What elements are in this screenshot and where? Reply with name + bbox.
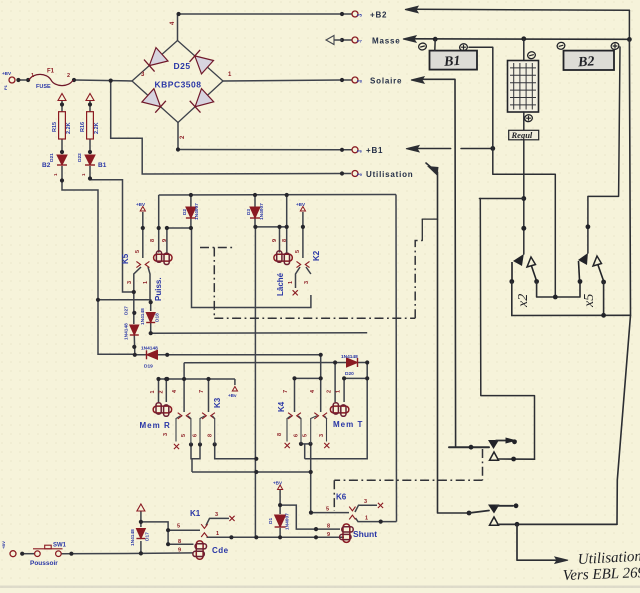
wire K1 pin3 [206,518,229,525]
svg-text:1N4148: 1N4148 [341,354,358,360]
svg-text:Mem T: Mem T [333,420,363,429]
wire K1 pin1 rail to Shunt [207,536,345,538]
svg-text:P6: P6 [357,148,363,153]
svg-text:D21: D21 [49,153,55,162]
svg-text:+BV: +BV [1,541,6,549]
power symbol above R15 [58,94,66,101]
svg-text:K1: K1 [190,509,201,518]
wire Regul down to x2 [523,140,525,254]
wire K2 coil leg8 from rail [286,195,288,253]
wire +B1 net [178,149,352,151]
wire D1 +BV col [279,490,281,514]
wire K3 leg8 to x256 [215,444,257,458]
wire K2 pin3 leg [306,267,311,274]
wire K6 pin1 [356,518,397,522]
svg-text:B2: B2 [42,162,51,169]
svg-text:6: 6 [193,434,199,437]
battery B1 box [430,51,478,70]
wire K6 pin3 [355,505,377,512]
svg-text:D18: D18 [155,313,161,322]
svg-text:8: 8 [282,239,288,242]
svg-text:K5: K5 [121,253,130,264]
wire Masse connector stub [344,39,352,41]
hand arrow Utilisation [427,166,439,176]
svg-text:5: 5 [181,434,187,437]
battery B2 box [564,51,615,70]
wire SW1 row [22,553,34,555]
wire K2 coil leg9 [279,227,281,253]
open arrow Masse net left [326,36,334,45]
svg-text:5: 5 [135,250,141,253]
wire K5 +BV col [142,212,144,258]
wire B Mem R row [159,378,235,380]
no-connect x K2 pin1 [293,290,298,295]
relay K3 contact 2 [193,390,215,444]
svg-text:5: 5 [295,250,301,253]
hand junction dot mid rail [553,295,558,300]
dash-dot linkage horizontal y480 [334,479,482,481]
wire K2 +BV col [302,212,304,258]
svg-text:+B2: +B2 [370,11,387,20]
no-connect x K6 pin3 [378,503,383,508]
wire fuse to bridge pin 3 [75,80,132,81]
wire K4 contact1 common [294,378,296,412]
svg-text:Cde: Cde [212,546,229,555]
diode D21 [42,153,67,176]
diode D2 1N4007 [182,203,200,220]
svg-text:5: 5 [326,507,329,513]
wire Mem T pin1 leg [343,378,345,402]
wire D18 cathode junction [150,323,152,334]
solar panel minus terminal [527,51,536,60]
wire D27 cathode to wireA [133,336,136,355]
svg-text:2: 2 [327,390,333,393]
relay K4 contact 1 [277,390,301,444]
wire K5 coil leg8 from rail [158,195,160,253]
wire rail 472 [192,471,311,473]
wire Masse to panel [523,39,525,60]
wire A with D19/D20 row [135,354,321,356]
power symbol above R16 [86,94,94,101]
svg-text:B1: B1 [98,162,107,169]
svg-text:D3: D3 [246,209,252,215]
wire K4 legs56 U down [300,443,302,445]
svg-text:+Bv: +Bv [228,393,237,398]
wire Mem T pin2 leg [334,363,336,403]
hand junction dots Masse [433,37,438,42]
wire rail down right to x=396 [395,195,398,522]
svg-text:5: 5 [177,524,180,530]
wire +BV input to fuse [18,79,26,81]
wire bridge pin1 to Solaire connector [223,80,352,81]
svg-text:KBPC3508: KBPC3508 [155,80,202,90]
wire D18 rail right [151,332,368,334]
wire K3 contact2 common [208,379,210,412]
connector P8 Solaire [352,77,358,83]
svg-text:FUSE: FUSE [36,84,51,90]
svg-text:Puiss.: Puiss. [154,277,163,301]
svg-text:P5: P5 [357,13,363,18]
svg-text:K6: K6 [336,493,347,502]
svg-text:D1: D1 [268,518,274,524]
connector P5 +B2 [352,11,358,17]
relay K6 contact [326,499,368,522]
svg-text:P9: P9 [357,172,363,177]
wire D2 bottom row [167,227,191,229]
solar panel plus terminal [524,114,533,123]
wire +BV wireB stub [234,379,236,385]
solar panel [508,61,539,113]
svg-text:3: 3 [304,281,310,284]
svg-text:Masse: Masse [372,37,400,46]
svg-text:9: 9 [272,239,278,242]
svg-text:9: 9 [162,239,168,242]
Regul box [509,130,539,140]
svg-text:1: 1 [150,390,156,393]
svg-text:5: 5 [303,434,309,437]
svg-text:+BV: +BV [136,202,146,207]
svg-text:1: 1 [143,281,149,284]
resistor R16 [80,112,100,139]
svg-text:1N4148: 1N4148 [124,323,130,340]
scanner edge smudge bottom [0,586,640,589]
svg-text:F1: F1 [47,69,55,75]
wire to Utilisation EBL arrow [517,524,556,560]
hand dot x2 feed [521,226,526,231]
wire A corner down to K4 contact2 [320,355,322,412]
wire Mem R coil leg2 [165,379,167,402]
diode D20 1N4148 [341,354,358,377]
wire K5 coil leg9 [166,228,168,253]
svg-text:B1: B1 [443,54,461,70]
svg-text:2: 2 [67,73,70,79]
svg-text:K4: K4 [277,401,286,412]
wire Masse long right edge down slanted [500,39,631,524]
svg-text:K2: K2 [312,250,321,261]
diode D19 1N4148 [141,346,158,370]
power symbol above D17 [137,504,145,511]
wire x2 left leg down [511,282,513,316]
bridge diode bottom-right [195,89,214,107]
connector P6 +B1 [352,147,358,153]
wire K5 pin1 branch [98,300,151,311]
svg-text:D17: D17 [145,532,151,541]
svg-text:Utilisation: Utilisation [366,170,413,179]
svg-text:1: 1 [31,73,34,79]
hand junction Utilisation-K6 dashdot tie [422,218,437,220]
dash-dot linkage vertical x482 [482,449,484,480]
wire x5 right leg down to rail [603,282,605,315]
no-connect x K4 right [324,443,329,448]
wire Shunt pin8 feed [280,505,340,529]
dash-dot linkage K5-K2 [200,247,235,249]
dash-dot linkage vertical to K6 [333,480,335,511]
svg-text:1: 1 [365,516,368,522]
wire U down to rail472 [191,459,193,472]
svg-text:3: 3 [163,433,169,436]
diode D3 1N4007 [246,203,265,220]
svg-text:D19: D19 [144,364,153,370]
wire top rail K5-K2 +B rail [159,194,396,197]
svg-text:1N4148: 1N4148 [140,308,146,325]
no-connect x K3 [174,444,179,449]
wire K1 pin8 [168,543,193,545]
relay K3 contact 1 [163,389,191,444]
wire K5 pin3 leg [134,267,141,292]
hand junction dot +B1 to B1 plus column [490,146,495,151]
wire long x256 D3 to K1 rail [254,227,256,537]
svg-text:9: 9 [178,548,181,554]
relay K5 coil [150,239,172,265]
wire B2 plus down to x5 feed [588,47,620,253]
wire D17 bottom to SW1 row [140,541,142,553]
hand junction dots Regul line [521,196,526,201]
wire bridge pin4 to +B2 connector [178,14,353,41]
wire D17 top row to K1 [141,522,168,544]
dash-dot linkage vertical x415 [415,241,422,319]
svg-text:R16: R16 [80,122,86,132]
relay K1 coil Cde [178,539,206,559]
hand arrow Solaire line [411,77,424,83]
wire B' Mem T segment [344,377,367,379]
diode D27 1N4148 [124,306,139,340]
wire K5 pin1 leg [148,267,150,300]
svg-text:Solaire: Solaire [370,77,402,86]
wire R16 to D22 [89,139,91,154]
power symbol +BV wire B [232,387,237,392]
svg-text:1: 1 [216,531,219,537]
svg-text:+BV: +BV [273,481,283,486]
svg-text:8: 8 [150,239,156,242]
svg-text:D27: D27 [124,306,130,315]
wire Utilisation hand line down [438,172,470,513]
wire K4 leg5 down to K6 pin5 [311,444,349,513]
dash-dot linkage vertical x214 [213,248,215,319]
x2 contact (hand) [509,254,539,284]
wire bridge pin2 down [177,123,179,150]
wire B1 plus down [469,47,555,297]
svg-text:7: 7 [283,390,289,393]
svg-text:Lâché: Lâché [276,272,285,296]
svg-text:3: 3 [215,512,218,518]
wire K2 pin1 leg [296,267,301,288]
svg-text:3: 3 [127,281,133,284]
relay K4 contact 2 [303,389,328,444]
x5 contact (hand) [578,224,606,284]
relay K6 coil Shunt [327,524,353,543]
diode D1 1N4007 [268,513,291,530]
bridge diode top-right [195,56,214,74]
svg-text:1N4007: 1N4007 [285,513,291,530]
svg-text:P7: P7 [357,39,363,44]
wire D2 column [190,195,192,207]
relay K3 coil Mem R [150,390,172,416]
connector P7 Masse [352,37,358,43]
svg-text:2.2K: 2.2K [66,122,72,134]
svg-text:+BV: +BV [296,202,306,207]
connector P1 +BV input [2,71,15,90]
svg-text:P1: P1 [3,84,8,90]
svg-text:D25: D25 [173,61,190,71]
power symbol +BV K5 [140,207,145,212]
wire bottom rail x2/x5 to right edge [512,314,631,316]
relay K4 coil Mem T [327,390,349,416]
diode D18 1N4148 [140,308,161,325]
svg-text:x2: x2 [516,294,531,308]
hand arrow +B1 line [406,146,419,152]
battery B1 minus terminal [418,42,427,51]
svg-text:Poussoir: Poussoir [30,560,58,567]
svg-text:9: 9 [327,532,330,538]
wire y363 branch [184,362,367,364]
resistor R15 [52,112,72,139]
svg-text:1N4148: 1N4148 [141,346,158,352]
svg-text:3: 3 [364,499,367,505]
wire Masse to B1 [434,39,436,50]
dash-dot linkage horizontal y318 [214,317,415,319]
bridge rectifier D25 KBPC3508 [132,21,232,139]
wire panel to Regul box [523,112,525,130]
wire D17 top [140,511,142,527]
first hand contact pair (Solaire) [449,438,535,462]
power symbol +BV K2 [300,207,305,212]
svg-text:+BV: +BV [2,71,12,76]
svg-text:D20: D20 [345,371,354,377]
hand dot x5 feed [586,224,591,229]
svg-text:1: 1 [288,281,294,284]
wire D21 down elbow to x98 [62,166,135,354]
no-connect x K4 left [285,443,290,448]
svg-text:SW1: SW1 [53,543,67,549]
wire D1 bottom [279,528,281,537]
svg-text:Vers EBL 269: Vers EBL 269 [563,565,640,584]
svg-text:P8: P8 [357,79,363,84]
wire K3 throw legs U [191,445,200,459]
bridge diode top-left [149,48,168,66]
wire x184 down to K3 contact1 [183,363,185,412]
svg-text:2: 2 [159,390,165,393]
wire R16 column [89,101,91,112]
svg-text:1N4007: 1N4007 [194,203,200,220]
svg-text:Mem R: Mem R [140,421,171,430]
svg-text:K3: K3 [213,397,222,408]
wire K1 pin5 [168,529,200,531]
svg-text:8: 8 [327,524,330,530]
svg-text:2.2K: 2.2K [94,122,100,134]
svg-text:1N4007: 1N4007 [259,203,265,220]
hand arrow Masse line [403,36,416,42]
svg-text:D2: D2 [182,209,188,215]
relay K2 coil [272,239,292,265]
svg-text:8: 8 [277,433,283,436]
battery B1 plus terminal [459,43,468,52]
svg-text:x5: x5 [582,294,597,308]
wire Mem R coil leg1 [158,379,160,402]
svg-text:B2: B2 [577,54,595,70]
relay K5 contact [127,250,149,284]
wire B' K4 segment [295,377,321,379]
bridge diode bottom-left [142,89,161,107]
svg-text:Shunt: Shunt [353,529,377,539]
battery B2 plus terminal [610,42,619,51]
hand arrow +B2 line [405,6,418,12]
wire +B2 hand line down right edge [628,10,630,39]
svg-text:7: 7 [199,390,205,393]
wire branch y198 to first triangle loop [479,198,523,200]
svg-text:+B1: +B1 [366,146,383,155]
svg-text:Regul: Regul [511,130,533,140]
wire R15 column [61,101,63,112]
connector P9 Utilisation [352,171,358,177]
wire x2 right leg to x5 left leg rail [537,282,580,298]
battery B2 minus terminal [556,42,565,51]
wire D22 down elbow to x122.5 [90,166,134,324]
wire R15 to D21 [61,139,63,154]
svg-text:1: 1 [336,390,342,393]
fuse F1 [29,69,73,91]
svg-text:R15: R15 [52,122,58,132]
connector bottom-left [1,541,16,557]
wire K2 pin3 loop [192,228,311,308]
svg-text:3: 3 [319,434,325,437]
svg-text:6: 6 [294,434,300,437]
no-connect x K1 pin3 [229,516,234,521]
power symbol +BV D1 [278,485,283,490]
hand junction dot x5 leg on rail [601,313,606,318]
diode D22 [77,153,107,176]
svg-text:1N4148: 1N4148 [130,529,136,546]
push button SW1 Poussoir [30,543,67,568]
second hand contact pair (Utilisation) [467,503,617,526]
wire Utilisation net [111,81,351,174]
svg-text:8: 8 [208,434,214,437]
wire D3 column [254,195,256,207]
svg-text:8: 8 [178,539,181,545]
junction dots [16,78,20,82]
relay K2 contact [288,250,310,284]
wire D3 bottom row to K2 coil [255,226,286,228]
wire D20 cathode down [305,363,368,459]
diode D17 1N4148 [130,529,151,547]
relay K1 contact [177,512,219,537]
svg-text:D22: D22 [77,153,83,162]
